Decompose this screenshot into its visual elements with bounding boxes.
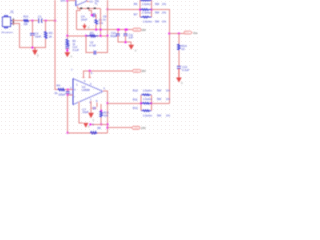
- svg-text:LM386: LM386: [82, 88, 90, 92]
- wire A horizontal: [90, 123, 107, 125]
- wire C2 to ground rail: [31, 35, 33, 47]
- resistor R5: [95, 19, 98, 25]
- wire W2 mid rail: [67, 35, 107, 37]
- svg-text:R4: R4: [57, 84, 61, 88]
- U2 pin6 T-bar: [89, 77, 91, 79]
- wire U1 inverting stub: [76, 6, 78, 9]
- svg-text:0.1uF: 0.1uF: [73, 49, 80, 52]
- connector bubble right: [184, 31, 192, 34]
- svg-text:R12: R12: [133, 106, 139, 110]
- junction W2 x96: [95, 29, 97, 31]
- resistor R6 (cropped top): [140, 0, 151, 1]
- junction W1 x100: [100, 29, 102, 31]
- junction bank1 right: [151, 9, 153, 11]
- junction 15V mid: [126, 29, 128, 31]
- svg-text:5W: 5W: [155, 11, 160, 15]
- wire J1 bottom pin: [13, 24, 20, 48]
- junction zobel tap: [168, 33, 170, 35]
- junction U1 output node: [107, 8, 109, 10]
- svg-text:1.0ohm: 1.0ohm: [143, 88, 153, 92]
- svg-text:1%: 1%: [166, 88, 171, 92]
- wire VCC vertical x67: [66, 1, 68, 36]
- junction bypass rail: [91, 14, 93, 16]
- wire zobel mid: [178, 50, 180, 66]
- ground symbol GND2: [128, 45, 134, 50]
- wire signal drop x55: [55, 21, 57, 90]
- svg-text:0.1uF: 0.1uF: [182, 68, 189, 72]
- svg-text:10nF: 10nF: [35, 34, 42, 38]
- wire R2 to ground rail: [45, 39, 47, 48]
- bank2 right bus: [150, 95, 152, 111]
- capacitor C2: [30, 33, 34, 35]
- resistor R7: [140, 9, 151, 11]
- wire U2 pin8 stub: [96, 103, 98, 108]
- junction ground rail: [31, 47, 33, 49]
- junction pin5: [100, 110, 102, 112]
- svg-text:10uF: 10uF: [81, 18, 88, 22]
- op-amp U1 output wire: [87, 0, 89, 2]
- svg-text:4.7uF: 4.7uF: [89, 44, 96, 47]
- wire U1 output to load bank: [108, 8, 141, 10]
- wire R3 lead: [66, 36, 68, 39]
- feedback row wire: [77, 7, 100, 9]
- svg-text:15V: 15V: [141, 69, 146, 73]
- junction W2 x107: [107, 35, 109, 37]
- svg-text:500pF: 500pF: [110, 35, 118, 38]
- feedback bar 3: [94, 7, 96, 9]
- wire bank1 right to right edge: [152, 10, 170, 34]
- wire zobel bottom: [178, 68, 180, 77]
- wire caps to ground: [118, 36, 131, 45]
- junction VCC top: [66, 0, 68, 2]
- junction B: [45, 20, 47, 22]
- junction U2 input: [67, 89, 69, 91]
- junction bank2 left: [140, 102, 142, 104]
- decoupling loop left wire: [86, 36, 93, 53]
- svg-text:J1: J1: [10, 10, 14, 14]
- wire W1 supply rail: [76, 29, 132, 31]
- resistor R11 (bank2 mid): [141, 102, 151, 104]
- wire node C up to top edge: [54, 0, 56, 21]
- capacitor C7 (gain): [91, 107, 97, 109]
- jog wire bar1 down-left: [76, 9, 80, 30]
- wire U2 output: [103, 91, 108, 104]
- svg-text:1%: 1%: [162, 11, 167, 15]
- wire C3 top lead: [67, 90, 69, 92]
- wire output node down: [107, 0, 109, 36]
- svg-text:1.0ohm: 1.0ohm: [143, 97, 153, 101]
- svg-text:-15V: -15V: [140, 126, 146, 130]
- load bank 1 left bus: [139, 0, 141, 17]
- bank2 left bus: [140, 95, 142, 111]
- U2 pin7 T-bar: [83, 77, 85, 79]
- wire bank2 right to right edge: [151, 102, 169, 104]
- junction U2 pin6: [89, 70, 91, 72]
- wire U2 pin1 stub: [90, 101, 92, 113]
- wire U2 gnd pin down: [79, 102, 83, 123]
- svg-text:220pF: 220pF: [58, 94, 66, 97]
- svg-text:R10: R10: [23, 15, 28, 19]
- junction wire A left: [89, 123, 91, 125]
- capacitor C11 label: [125, 29, 127, 31]
- svg-text:1nF: 1nF: [129, 36, 134, 39]
- svg-text:Out: Out: [185, 32, 189, 35]
- connector bubble -15V: [132, 126, 140, 129]
- svg-text:15V: 15V: [141, 28, 146, 32]
- U2 pin6 stub: [89, 71, 91, 78]
- connector bubble 15V mid: [132, 69, 141, 72]
- wire output node down: [107, 103, 109, 133]
- svg-text:15V: 15V: [134, 70, 139, 73]
- wire R1 to C1: [29, 20, 38, 22]
- wire VCC to op-amp U1: [67, 0, 76, 2]
- svg-text:U1: U1: [89, 0, 93, 4]
- resistor R13: [100, 111, 103, 118]
- svg-text:1%: 1%: [166, 114, 171, 118]
- ground symbol GND6: [83, 123, 88, 128]
- connector bubble 15V: [132, 28, 141, 31]
- capacitor C11: [124, 34, 128, 36]
- wire W1-W2 link: [100, 30, 102, 36]
- capacitor C12 (zobel): [177, 66, 181, 68]
- wire U2 inverting input: [68, 94, 73, 96]
- wire R4 to U2 input: [65, 89, 73, 91]
- svg-text:R7: R7: [134, 12, 138, 16]
- junction W2 x86: [85, 35, 87, 37]
- feedback bar 1: [80, 7, 82, 9]
- svg-text:1%: 1%: [166, 97, 171, 101]
- junction W2 x100: [100, 35, 102, 37]
- capacitor C10: [116, 34, 120, 36]
- junction W2 x67: [66, 35, 68, 37]
- junction join wire: [125, 41, 127, 43]
- wire to -15V bubble: [108, 127, 132, 129]
- svg-text:10k: 10k: [104, 114, 109, 118]
- svg-text:10uF: 10uF: [82, 110, 89, 114]
- junction zobel: [178, 33, 180, 35]
- svg-text:5W: 5W: [157, 114, 162, 118]
- resistor R7 (series on W2): [86, 35, 99, 37]
- junction output node: [107, 102, 109, 104]
- feedback bar 2: [87, 7, 89, 9]
- supply wire to U2 top pins: [84, 71, 132, 78]
- svg-text:1.0ohm: 1.0ohm: [143, 19, 153, 23]
- jog wire bar2 down-right: [89, 9, 93, 15]
- wire C11 to join: [125, 36, 127, 43]
- wire feedback row turn down: [100, 8, 102, 29]
- svg-text:1%: 1%: [162, 2, 167, 6]
- junction wire A: [100, 123, 102, 125]
- svg-text:-15V: -15V: [133, 127, 138, 130]
- svg-text:1.0ohm: 1.0ohm: [143, 114, 153, 118]
- op-amp U2 triangle: [73, 79, 103, 105]
- svg-text:5W: 5W: [157, 88, 162, 92]
- junction bank1 left: [139, 9, 141, 11]
- wire right edge vertical: [168, 34, 170, 104]
- decoupling loop right wire: [96, 36, 107, 53]
- wire node B down to R2: [45, 21, 47, 31]
- resistor R12 (bank2 bottom): [141, 110, 151, 112]
- svg-text:15V: 15V: [60, 0, 65, 2]
- bottom ground wire C: [68, 132, 108, 134]
- load bank 1 right bus: [151, 0, 153, 17]
- svg-text:Out: Out: [193, 32, 197, 35]
- power arrow VEE mid: [84, 24, 86, 27]
- svg-text:C1: C1: [38, 14, 42, 18]
- microphone J1 box: [3, 16, 13, 28]
- wire C13 to ground: [66, 48, 68, 52]
- ground symbol GND3: [176, 78, 182, 83]
- wire J1 top pin to R1: [13, 20, 23, 22]
- wire to ground symbol: [34, 48, 36, 50]
- svg-text:R6: R6: [134, 2, 138, 6]
- resistor R1: [23, 20, 29, 22]
- junction A: [31, 20, 33, 22]
- svg-text:R11: R11: [133, 97, 138, 101]
- resistor R4: [58, 88, 66, 90]
- wire zobel down: [178, 34, 180, 44]
- junction C: [54, 20, 56, 22]
- resistor R14 (zobel): [178, 44, 181, 51]
- svg-text:5W: 5W: [155, 2, 160, 6]
- junction bottom wire: [67, 132, 69, 134]
- junction lower input: [67, 94, 69, 96]
- junction above ground: [66, 49, 68, 51]
- wire C3 bottom lead: [67, 93, 69, 132]
- ground rail wire: [19, 47, 46, 49]
- wire R5 down to W2: [95, 25, 97, 30]
- wire R13 down: [100, 118, 102, 125]
- wire C4 right to R5 chain: [95, 15, 96, 19]
- svg-text:1%: 1%: [162, 19, 167, 23]
- capacitor C4 (rail): [93, 13, 95, 17]
- svg-text:15V: 15V: [134, 29, 139, 32]
- svg-text:R10: R10: [133, 88, 139, 92]
- junction wire A x107: [107, 123, 109, 125]
- svg-text:1.0ohm: 1.0ohm: [142, 2, 152, 6]
- svg-text:5W: 5W: [157, 97, 162, 101]
- wire C1 to node B: [42, 20, 55, 22]
- svg-text:10k: 10k: [23, 22, 28, 26]
- svg-text:Microphone: Microphone: [2, 31, 14, 34]
- capacitor C13: [65, 46, 69, 48]
- junction 15V left: [118, 29, 120, 31]
- wire output to bank2: [108, 102, 142, 104]
- svg-text:10k: 10k: [99, 21, 104, 25]
- wire pin5 chain down: [100, 104, 102, 111]
- svg-text:1.0ohm: 1.0ohm: [142, 11, 152, 15]
- svg-text:5W: 5W: [155, 19, 160, 23]
- wire zobel tap: [169, 33, 184, 35]
- op-amp U1 (cropped at top): [76, 0, 87, 6]
- wire cap C11 drop: [125, 30, 127, 34]
- ground symbol GND4: [65, 52, 71, 57]
- ground symbol GND1: [32, 50, 38, 55]
- svg-text:10: 10: [182, 47, 186, 51]
- resistor R8 (on bottom wire): [90, 132, 97, 134]
- resistor R2: [44, 31, 47, 39]
- microphone element bar: [12, 19, 14, 25]
- resistor R9 (bank1 bottom): [140, 16, 151, 18]
- capacitor C1: [39, 18, 43, 23]
- wire junction A down to C2: [31, 21, 33, 34]
- resistor R10 (bank2 top): [141, 94, 151, 96]
- junction bank2 right: [150, 102, 152, 104]
- resistor R3: [66, 39, 69, 46]
- ground symbol GND5: [88, 113, 94, 119]
- wire cap C10 drop: [117, 30, 119, 34]
- capacitor C10 label: [117, 29, 119, 31]
- junction -15V tap: [107, 127, 109, 129]
- capacitor C5: [94, 51, 96, 55]
- svg-text:+: +: [74, 88, 76, 92]
- svg-text:1n: 1n: [103, 17, 107, 21]
- capacitor C3: [66, 92, 70, 94]
